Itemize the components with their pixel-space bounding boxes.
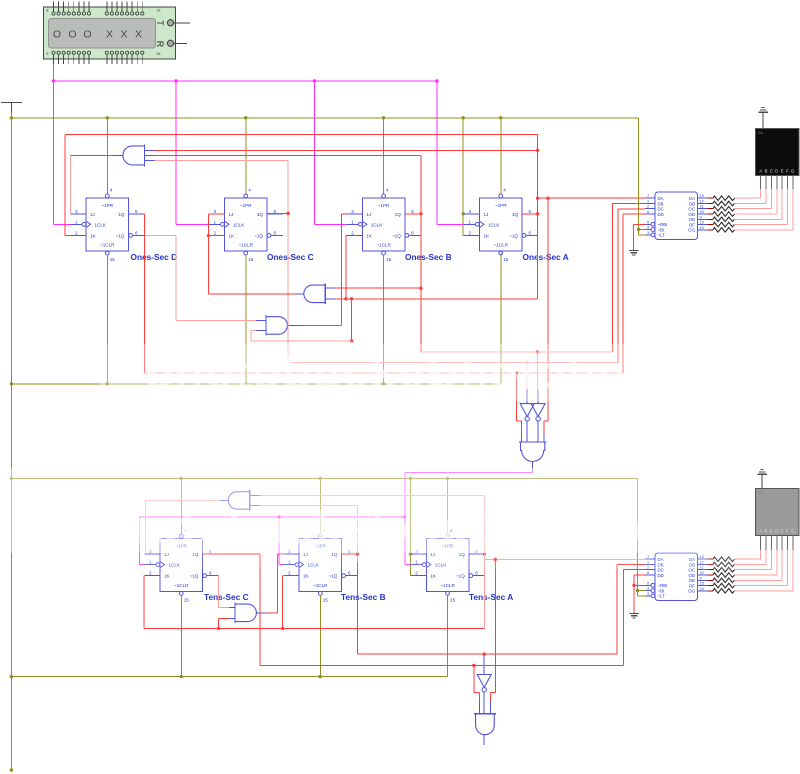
svg-text:1Q: 1Q bbox=[257, 212, 264, 217]
svg-text:15: 15 bbox=[503, 257, 509, 262]
svg-text:A: A bbox=[759, 169, 762, 174]
svg-text:R: R bbox=[155, 41, 165, 48]
svg-text:~BI: ~BI bbox=[658, 227, 665, 232]
svg-text:~1CLR: ~1CLR bbox=[313, 583, 328, 588]
svg-text:~1CLR: ~1CLR bbox=[239, 243, 254, 248]
svg-text:2: 2 bbox=[469, 230, 472, 235]
svg-text:DB: DB bbox=[658, 201, 664, 206]
svg-text:~1CLR: ~1CLR bbox=[494, 243, 509, 248]
svg-text:photobucket: photobucket bbox=[145, 346, 443, 398]
svg-text:~1CLR: ~1CLR bbox=[174, 583, 189, 588]
svg-text:1CLK: 1CLK bbox=[95, 222, 107, 227]
svg-text:4: 4 bbox=[110, 188, 113, 193]
svg-text:2: 2 bbox=[149, 571, 152, 576]
svg-text:~1Q: ~1Q bbox=[190, 574, 199, 579]
svg-text:1CLK: 1CLK bbox=[371, 222, 383, 227]
svg-text:F: F bbox=[786, 529, 789, 534]
svg-text:~1CLR: ~1CLR bbox=[440, 583, 455, 588]
svg-text:1K: 1K bbox=[484, 233, 491, 238]
svg-text:Ones-Sec B: Ones-Sec B bbox=[405, 252, 452, 262]
svg-text:OA: OA bbox=[689, 196, 695, 201]
svg-text:9: 9 bbox=[700, 215, 702, 219]
svg-text:DD: DD bbox=[658, 573, 664, 578]
svg-text:6: 6 bbox=[529, 230, 532, 235]
svg-text:~LT: ~LT bbox=[658, 594, 666, 599]
svg-text:OG: OG bbox=[688, 589, 695, 594]
svg-text:~1Q: ~1Q bbox=[254, 233, 263, 238]
svg-text:CA: CA bbox=[758, 131, 764, 135]
svg-text:~1Q: ~1Q bbox=[329, 574, 338, 579]
svg-text:X: X bbox=[120, 29, 127, 41]
svg-text:OC: OC bbox=[688, 207, 695, 212]
svg-text:1: 1 bbox=[647, 199, 649, 203]
svg-text:1CLK: 1CLK bbox=[233, 222, 245, 227]
svg-text:2: 2 bbox=[415, 571, 418, 576]
svg-text:~1Q: ~1Q bbox=[116, 233, 125, 238]
svg-text:1: 1 bbox=[214, 219, 217, 224]
svg-text:13: 13 bbox=[700, 194, 704, 198]
svg-text:T: T bbox=[155, 20, 165, 26]
svg-text:10: 10 bbox=[700, 210, 704, 214]
svg-text:3: 3 bbox=[469, 209, 472, 214]
svg-text:6: 6 bbox=[209, 571, 212, 576]
svg-text:4: 4 bbox=[386, 188, 389, 193]
svg-text:B: B bbox=[765, 169, 768, 174]
svg-text:O: O bbox=[68, 29, 76, 41]
svg-text:~1PR: ~1PR bbox=[495, 203, 507, 208]
svg-text:14: 14 bbox=[700, 226, 704, 230]
svg-text:5: 5 bbox=[135, 209, 138, 214]
svg-text:4: 4 bbox=[248, 188, 251, 193]
svg-text:1J: 1J bbox=[366, 212, 371, 217]
svg-text:D: D bbox=[775, 529, 778, 534]
svg-text:C: C bbox=[770, 529, 773, 534]
svg-text:Ones-Sec D: Ones-Sec D bbox=[131, 252, 178, 262]
svg-text:E: E bbox=[781, 529, 784, 534]
svg-text:6: 6 bbox=[647, 210, 649, 214]
svg-text:2: 2 bbox=[214, 230, 217, 235]
svg-text:~1PR: ~1PR bbox=[240, 203, 252, 208]
svg-text:1CLK: 1CLK bbox=[488, 222, 500, 227]
svg-text:~1PR: ~1PR bbox=[101, 203, 113, 208]
svg-text:15: 15 bbox=[323, 597, 329, 602]
svg-text:5: 5 bbox=[647, 220, 649, 224]
svg-text:~1Q: ~1Q bbox=[456, 574, 465, 579]
svg-text:3: 3 bbox=[647, 231, 649, 235]
svg-text:10: 10 bbox=[700, 571, 704, 575]
svg-text:OD: OD bbox=[688, 573, 695, 578]
svg-text:15: 15 bbox=[386, 257, 392, 262]
svg-text:7: 7 bbox=[647, 194, 649, 198]
svg-text:~1PR: ~1PR bbox=[378, 203, 390, 208]
svg-text:X: X bbox=[106, 29, 113, 41]
svg-text:~BI: ~BI bbox=[658, 588, 665, 593]
svg-text:6: 6 bbox=[475, 571, 478, 576]
svg-text:OE: OE bbox=[689, 578, 695, 583]
svg-text:X: X bbox=[135, 29, 142, 41]
svg-text:photobucket: photobucket bbox=[380, 501, 678, 553]
svg-text:5: 5 bbox=[647, 581, 649, 585]
svg-text:15: 15 bbox=[700, 582, 704, 586]
svg-text:Tens-Sec B: Tens-Sec B bbox=[341, 592, 386, 602]
svg-text:1: 1 bbox=[75, 219, 78, 224]
svg-text:1Q: 1Q bbox=[395, 212, 402, 217]
svg-text:5: 5 bbox=[529, 209, 532, 214]
svg-text:9: 9 bbox=[47, 52, 49, 56]
svg-text:1Q: 1Q bbox=[512, 212, 519, 217]
svg-text:1J: 1J bbox=[484, 212, 489, 217]
svg-text:2: 2 bbox=[288, 571, 291, 576]
svg-text:OF: OF bbox=[689, 583, 695, 588]
svg-text:15: 15 bbox=[700, 221, 704, 225]
svg-text:G: G bbox=[791, 169, 794, 174]
svg-text:1K: 1K bbox=[229, 233, 236, 238]
svg-text:1K: 1K bbox=[164, 574, 171, 579]
svg-text:photobucket: photobucket bbox=[430, 346, 728, 398]
svg-text:DA: DA bbox=[658, 196, 664, 201]
svg-text:2: 2 bbox=[75, 230, 78, 235]
svg-text:G: G bbox=[791, 529, 794, 534]
svg-text:6: 6 bbox=[274, 230, 277, 235]
svg-text:1: 1 bbox=[351, 219, 354, 224]
svg-text:4: 4 bbox=[503, 188, 506, 193]
svg-text:S4: S4 bbox=[156, 52, 160, 56]
svg-text:Ones-Sec C: Ones-Sec C bbox=[267, 252, 314, 262]
svg-text:4: 4 bbox=[647, 226, 649, 230]
svg-text:E: E bbox=[781, 169, 784, 174]
svg-text:3: 3 bbox=[75, 209, 78, 214]
svg-text:Ones-Sec A: Ones-Sec A bbox=[523, 252, 569, 262]
svg-text:CA: CA bbox=[758, 491, 764, 495]
svg-text:~1Q: ~1Q bbox=[509, 233, 518, 238]
svg-text:~1Q: ~1Q bbox=[392, 233, 401, 238]
svg-text:B: B bbox=[765, 529, 768, 534]
svg-text:~LT: ~LT bbox=[658, 233, 666, 238]
svg-text:DD: DD bbox=[658, 212, 664, 217]
svg-text:F: F bbox=[786, 169, 789, 174]
svg-text:A: A bbox=[759, 529, 762, 534]
svg-text:16: 16 bbox=[157, 9, 161, 13]
svg-text:2: 2 bbox=[351, 230, 354, 235]
svg-text:15: 15 bbox=[248, 257, 254, 262]
svg-text:6: 6 bbox=[411, 230, 414, 235]
svg-text:~RBI: ~RBI bbox=[658, 583, 668, 588]
svg-text:O: O bbox=[53, 29, 61, 41]
svg-text:1J: 1J bbox=[90, 212, 95, 217]
svg-text:OE: OE bbox=[689, 217, 695, 222]
svg-text:2: 2 bbox=[647, 205, 649, 209]
svg-text:1K: 1K bbox=[430, 574, 437, 579]
svg-text:12: 12 bbox=[700, 199, 704, 203]
svg-text:8: 8 bbox=[47, 9, 49, 13]
svg-text:Tens-Sec A: Tens-Sec A bbox=[469, 592, 513, 602]
svg-text:Tens-Sec C: Tens-Sec C bbox=[204, 592, 249, 602]
svg-text:D: D bbox=[775, 169, 778, 174]
svg-text:1: 1 bbox=[469, 219, 472, 224]
svg-text:3: 3 bbox=[351, 209, 354, 214]
svg-text:OF: OF bbox=[689, 222, 695, 227]
svg-text:14: 14 bbox=[700, 587, 704, 591]
svg-text:O: O bbox=[83, 29, 91, 41]
svg-text:3: 3 bbox=[647, 592, 649, 596]
svg-text:5: 5 bbox=[411, 209, 414, 214]
svg-text:3: 3 bbox=[214, 209, 217, 214]
svg-text:1J: 1J bbox=[229, 212, 234, 217]
svg-text:OD: OD bbox=[688, 212, 695, 217]
svg-text:~1CLR: ~1CLR bbox=[100, 243, 115, 248]
svg-text:1K: 1K bbox=[90, 233, 97, 238]
svg-text:~1CLR: ~1CLR bbox=[376, 243, 391, 248]
svg-text:~RBI: ~RBI bbox=[658, 222, 668, 227]
svg-text:15: 15 bbox=[110, 257, 116, 262]
svg-text:DC: DC bbox=[658, 207, 664, 212]
svg-text:1Q: 1Q bbox=[118, 212, 125, 217]
svg-text:6: 6 bbox=[647, 571, 649, 575]
svg-text:1K: 1K bbox=[366, 233, 373, 238]
svg-text:11: 11 bbox=[700, 205, 704, 209]
svg-text:15: 15 bbox=[450, 597, 456, 602]
svg-text:15: 15 bbox=[184, 597, 190, 602]
svg-text:1K: 1K bbox=[303, 574, 310, 579]
svg-text:4: 4 bbox=[647, 587, 649, 591]
svg-text:OG: OG bbox=[688, 228, 695, 233]
svg-text:OB: OB bbox=[689, 201, 695, 206]
svg-text:6: 6 bbox=[348, 571, 351, 576]
svg-text:C: C bbox=[770, 169, 773, 174]
svg-text:6: 6 bbox=[135, 230, 138, 235]
svg-text:9: 9 bbox=[700, 576, 702, 580]
svg-text:photobucket: photobucket bbox=[90, 501, 388, 553]
